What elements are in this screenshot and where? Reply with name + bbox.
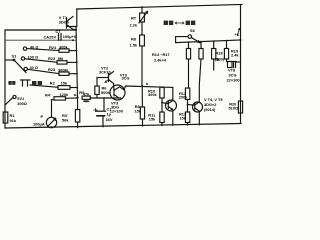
svg-text:120k: 120k [60, 92, 69, 97]
capacitor C1 [94, 98, 106, 127]
transistor VT3 [110, 84, 125, 101]
svg-text:2.4k×4: 2.4k×4 [154, 58, 167, 63]
svg-text:2.4k: 2.4k [231, 53, 239, 58]
resistor R5 [82, 96, 120, 102]
svg-text:22×100: 22×100 [227, 77, 240, 82]
node bus vertical x78 [76, 27, 78, 98]
svg-text:500k: 500k [101, 90, 110, 95]
svg-text:47k: 47k [83, 92, 90, 97]
svg-text:R18: R18 [216, 51, 224, 56]
wire left edge vertical [4, 30, 6, 128]
svg-text:R25: R25 [48, 67, 56, 72]
node contact row1 [23, 47, 26, 50]
label S6 cjk [164, 21, 196, 25]
wire bank top [176, 40, 241, 43]
svg-text:15k: 15k [180, 116, 187, 121]
transistor VT1 [67, 9, 77, 30]
svg-text:C7: C7 [56, 29, 61, 34]
resistor R25 [27, 69, 77, 75]
svg-text:RT: RT [131, 16, 137, 21]
resistor R12 [185, 88, 189, 112]
svg-text:200k: 200k [179, 95, 188, 100]
resistor R4 row5 [52, 97, 78, 100]
svg-text:B: B [217, 57, 220, 62]
svg-text:300Ω: 300Ω [17, 101, 27, 106]
resistor R24 [27, 49, 77, 53]
svg-text:40 Ω: 40 Ω [30, 44, 39, 49]
wire top supply rail [77, 5, 242, 10]
resistor R10 [160, 87, 164, 112]
wire left box top [5, 29, 76, 31]
transistor VT2 [97, 72, 114, 84]
svg-text:R14 ~R17: R14 ~R17 [152, 52, 170, 57]
svg-text:3CF10: 3CF10 [99, 70, 111, 75]
resistor R15 [199, 42, 203, 102]
svg-text:1.5k: 1.5k [130, 43, 138, 48]
svg-text:100μA: 100μA [33, 122, 45, 127]
capacitor C7 [59, 34, 62, 41]
svg-text:S1: S1 [12, 54, 18, 59]
svg-text:S6: S6 [190, 28, 196, 33]
capacitor row4 trimmer [21, 80, 31, 86]
svg-text:R23: R23 [48, 56, 56, 61]
svg-text:300M: 300M [58, 67, 68, 72]
node contact row2 [21, 57, 24, 60]
node junction dots [51, 6, 242, 128]
transistor VT5 [188, 102, 203, 125]
svg-text:P: P [41, 114, 44, 119]
svg-text:15k: 15k [61, 81, 68, 86]
resistor R14 [186, 42, 190, 88]
svg-text:12×100: 12×100 [110, 108, 123, 113]
svg-text:R4’: R4’ [45, 92, 51, 97]
resistor R11 [160, 112, 164, 125]
resistor R17 [224, 41, 228, 62]
svg-text:100 Ω: 100 Ω [28, 54, 39, 59]
wire battery row y40 [5, 39, 76, 41]
wire right edge vertical [240, 5, 242, 124]
resistor R20 [238, 101, 242, 113]
svg-text:15k: 15k [135, 108, 142, 113]
svg-text:5M: 5M [58, 56, 63, 61]
label row4 cjk [8, 81, 42, 85]
svg-text:2.2k: 2.2k [130, 23, 138, 28]
svg-text:a.: a. [74, 92, 77, 97]
svg-text:510Ω: 510Ω [229, 105, 239, 110]
svg-text:16V: 16V [106, 117, 113, 122]
wire VT3 collector to multivibrator [124, 86, 173, 90]
svg-text:91k: 91k [10, 118, 17, 123]
wire bottom ground rail [5, 124, 241, 129]
svg-text:(9014): (9014) [204, 107, 216, 112]
svg-text:R8: R8 [131, 37, 137, 42]
switch S6 [176, 35, 200, 43]
svg-text:300k: 300k [59, 44, 68, 49]
resistor R2 [30, 85, 77, 89]
switch SB1 [5, 95, 16, 105]
svg-text:40 Ω: 40 Ω [30, 65, 39, 70]
svg-text:3CG: 3CG [122, 76, 130, 81]
svg-text:R2: R2 [50, 81, 56, 86]
svg-text:100μ+6: 100μ+6 [63, 34, 77, 39]
svg-text:3DG6: 3DG6 [59, 20, 70, 25]
resistor R13 [185, 112, 189, 125]
svg-text:56k: 56k [62, 117, 69, 122]
power +6V terminal [238, 29, 240, 36]
switch S1 rotary arm [5, 59, 26, 72]
meter P [46, 100, 56, 128]
resistor R3 on bus [75, 98, 79, 128]
potentiometer RT [139, 7, 148, 23]
transformer B [228, 62, 241, 68]
resistor R16 [212, 41, 216, 70]
resistor R6 [95, 78, 99, 99]
resistor R8 [140, 86, 144, 126]
resistor R1 [3, 112, 8, 123]
svg-text:300k: 300k [148, 92, 157, 97]
transistor VT4 [162, 87, 177, 125]
resistor R23 [25, 59, 77, 64]
node contact row3 [24, 67, 27, 70]
svg-text:CA25V: CA25V [44, 34, 57, 39]
resistor R7 [140, 22, 145, 86]
svg-text:15k: 15k [149, 116, 156, 121]
svg-text:R24: R24 [49, 45, 57, 50]
